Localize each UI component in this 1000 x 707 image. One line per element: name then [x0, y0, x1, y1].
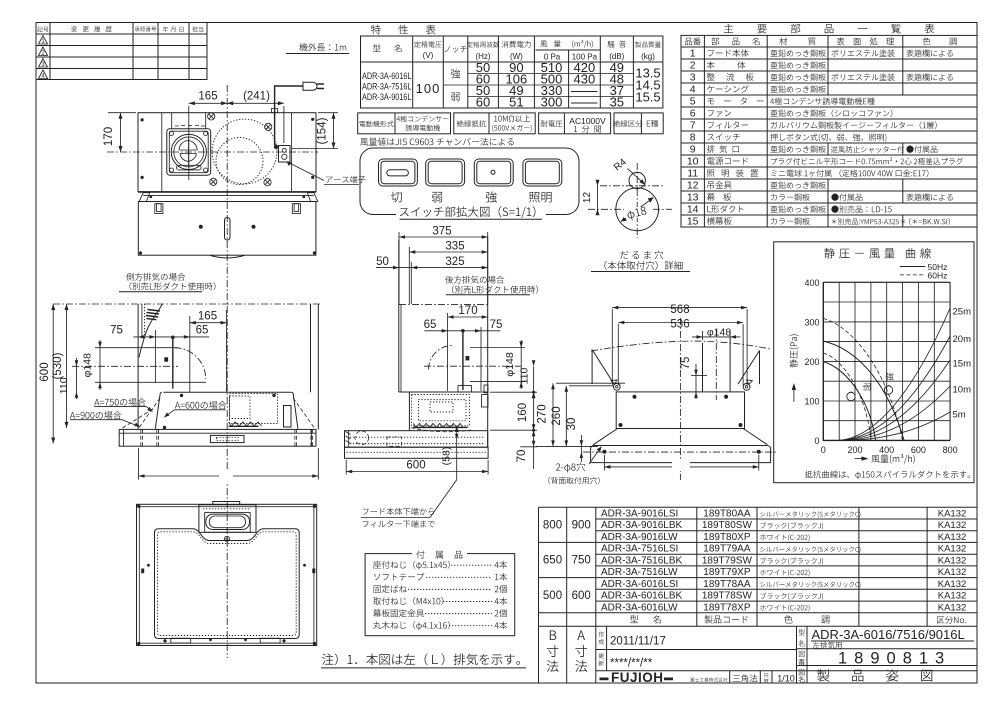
- svg-text:189T79XP: 189T79XP: [703, 567, 751, 578]
- cable length note underline: [286, 53, 349, 55]
- svg-text:189T80AA: 189T80AA: [703, 509, 751, 520]
- duct center rod: [462, 331, 464, 390]
- knob symbols: [847, 386, 893, 401]
- svg-text:3: 3: [690, 72, 696, 84]
- svg-text:KA132: KA132: [938, 602, 967, 613]
- phi148 dim right: [470, 340, 525, 389]
- duct dotted edge: [144, 304, 146, 336]
- phi148 dim: [95, 340, 206, 390]
- exhaust adapter corner screws: [170, 132, 174, 136]
- center slot: [225, 218, 231, 241]
- svg-text:ADR-3A-9016LSI: ADR-3A-9016LSI: [601, 509, 678, 520]
- top view exhaust adapter square: [171, 113, 173, 129]
- svg-text:(W): (W): [510, 52, 523, 61]
- front wall lines right: [310, 304, 312, 392]
- svg-text:1: 1: [690, 48, 696, 60]
- svg-text:ADR-3A-7516LBK: ADR-3A-7516LBK: [601, 555, 682, 566]
- svg-text:270: 270: [537, 404, 549, 423]
- svg-text:ADR-3A-6016/7516/9016L: ADR-3A-6016/7516/9016L: [812, 627, 965, 642]
- svg-text:25m: 25m: [953, 307, 972, 318]
- svg-text:KA132: KA132: [938, 520, 967, 531]
- svg-text:189T80SW: 189T80SW: [702, 520, 753, 531]
- svg-text:KA132: KA132: [938, 555, 967, 566]
- 600 dim: [346, 460, 488, 475]
- svg-text:110: 110: [58, 377, 70, 394]
- svg-text:6: 6: [690, 108, 696, 120]
- duct: [702, 343, 704, 392]
- svg-text:65: 65: [424, 319, 437, 331]
- dim 170: [424, 313, 500, 391]
- svg-text:430: 430: [574, 72, 596, 87]
- svg-text:ADR-3A-6016LW: ADR-3A-6016LW: [601, 602, 678, 613]
- svg-text:30: 30: [566, 418, 578, 431]
- white-out patches (under japanese text): [396, 206, 546, 219]
- svg-text:20m: 20m: [953, 334, 972, 345]
- svg-text:5m: 5m: [953, 410, 966, 421]
- (58) dim + leader: [361, 426, 459, 518]
- svg-text:11: 11: [687, 168, 698, 180]
- svg-text:375: 375: [432, 226, 451, 238]
- body internals dotted: [412, 395, 470, 426]
- rear centerline: [679, 318, 681, 480]
- grid: [823, 282, 950, 440]
- dims 568/536: [612, 306, 747, 385]
- svg-text:500: 500: [543, 590, 562, 602]
- dims 75 / 65 / 165: [133, 310, 226, 392]
- svg-text:400: 400: [804, 278, 819, 288]
- accessory box: [365, 554, 515, 636]
- svg-text:KA132: KA132: [938, 591, 967, 602]
- svg-text:ADR-3A-9016LW: ADR-3A-9016LW: [601, 532, 678, 543]
- svg-text:189T80XP: 189T80XP: [703, 532, 751, 543]
- phi18 arrow across circle: [591, 271, 690, 273]
- 110 dim: [75, 358, 79, 399]
- phi148 dim: [692, 331, 741, 340]
- svg-text:2: 2: [690, 60, 696, 72]
- svg-text:600: 600: [406, 460, 425, 472]
- back wall: [137, 304, 139, 430]
- model rows ascii: [601, 509, 682, 614]
- svg-text:ADR-3A-9016L: ADR-3A-9016L: [362, 92, 412, 102]
- B dim: [604, 455, 758, 471]
- svg-text:7: 7: [690, 120, 696, 132]
- svg-text:0: 0: [821, 445, 826, 455]
- lower rect screw dots: [199, 225, 203, 229]
- duct collar: [458, 386, 472, 393]
- svg-text:ADR-3A-6016L: ADR-3A-6016L: [362, 71, 412, 81]
- svg-text:300: 300: [804, 317, 819, 327]
- electrical spec boxes: [358, 113, 664, 134]
- dims 375/335/325/50: [376, 232, 488, 304]
- svg-text:170: 170: [103, 127, 115, 146]
- svg-text:KA132: KA132: [938, 567, 967, 578]
- svg-text:ADR-3A-7516L: ADR-3A-7516L: [362, 82, 412, 92]
- dashed slants 750/900: [121, 398, 315, 429]
- 270/260/30 dims: [536, 383, 625, 462]
- A dimension: [139, 448, 319, 480]
- svg-text:900: 900: [572, 520, 591, 532]
- svg-text:10m: 10m: [953, 385, 972, 396]
- svg-text:800: 800: [943, 445, 958, 455]
- 110 dim right: [532, 360, 536, 398]
- svg-text:5: 5: [690, 96, 696, 108]
- svg-text:(V): (V): [423, 51, 434, 60]
- svg-text:(154): (154): [317, 117, 329, 144]
- x axis arrow: [855, 458, 866, 460]
- svg-text:φ148: φ148: [81, 353, 93, 377]
- svg-text:(58): (58): [441, 447, 453, 466]
- svg-text:800: 800: [543, 520, 562, 532]
- svg-text:15.5: 15.5: [635, 90, 660, 105]
- svg-text:KA132: KA132: [938, 544, 967, 555]
- side clips: [141, 569, 144, 574]
- svg-text:650: 650: [543, 555, 562, 567]
- top view flange band: [138, 192, 318, 201]
- switch box top center: [213, 502, 240, 505]
- side panels: [592, 350, 614, 385]
- svg-text:70: 70: [516, 450, 528, 463]
- svg-text:12: 12: [582, 192, 593, 204]
- fascia (slim front): [345, 431, 488, 448]
- parts row numbers: [687, 48, 699, 228]
- 75 dim: [691, 364, 707, 399]
- column dividers rows 1-4,9,12,13,15 and row14 at 828: [828, 47, 903, 227]
- svg-text:13: 13: [687, 192, 699, 204]
- top view corner screw dots: [141, 118, 144, 121]
- svg-text:0 Pa: 0 Pa: [544, 53, 561, 62]
- plug: [303, 82, 317, 90]
- exhaust duct circle: [171, 134, 206, 169]
- svg-text:(530): (530): [52, 352, 64, 379]
- svg-text:****/**/**: ****/**/**: [610, 658, 653, 670]
- svg-text:50: 50: [376, 256, 389, 268]
- top view fan scroll dotted circles: [212, 119, 277, 184]
- keyholes on top corners: [611, 380, 752, 390]
- svg-text:60: 60: [476, 95, 490, 110]
- svg-text:15m: 15m: [953, 359, 972, 370]
- resistance curves: [839, 308, 950, 440]
- svg-text:51: 51: [509, 95, 523, 110]
- svg-text:1890813: 1890813: [838, 650, 951, 668]
- body internals dotted: [230, 394, 278, 424]
- svg-text:KA132: KA132: [938, 532, 967, 543]
- svg-text:12: 12: [687, 180, 699, 192]
- swing arc: [175, 348, 206, 379]
- svg-text:325: 325: [445, 256, 464, 268]
- svg-text:189T79SW: 189T79SW: [702, 555, 753, 566]
- A=case leaders: [70, 407, 226, 427]
- svg-text:ADR-3A-9016LBK: ADR-3A-9016LBK: [601, 520, 682, 531]
- wall hatch / duct break: [146, 310, 160, 320]
- slants: [593, 429, 617, 445]
- ceiling: [399, 303, 488, 305]
- y axis arrow: [793, 385, 795, 402]
- top view exhaust horizontal centerline: [107, 151, 318, 153]
- wavy wall line: [591, 341, 770, 351]
- switch buttons: [379, 159, 562, 186]
- svg-text:200: 200: [847, 445, 862, 455]
- svg-text:600: 600: [572, 590, 591, 602]
- svg-text:189T78XP: 189T78XP: [703, 602, 751, 613]
- top view screws with cross: [208, 113, 272, 186]
- characteristics data (ascii): [362, 71, 412, 102]
- fascia band: [119, 429, 316, 446]
- svg-text:0: 0: [814, 436, 819, 446]
- svg-text:KA132: KA132: [938, 509, 967, 520]
- bottom arc cutout: [210, 255, 245, 258]
- body: [616, 392, 744, 429]
- svg-text:14: 14: [687, 204, 699, 216]
- dimension 165 / (241) (top view top): [189, 101, 284, 180]
- svg-text:ADR-3A-6016LBK: ADR-3A-6016LBK: [601, 591, 682, 602]
- hanger brackets: [155, 204, 163, 214]
- ceiling line: [53, 303, 320, 305]
- svg-text:75: 75: [490, 319, 503, 331]
- top view body rect: [138, 113, 316, 192]
- legend: [900, 266, 925, 268]
- top view lower rect (front section): [138, 202, 316, 256]
- svg-text:15: 15: [687, 216, 699, 228]
- switch plate on fascia: [210, 435, 244, 442]
- svg-text:189T79AA: 189T79AA: [703, 544, 751, 555]
- svg-text:75: 75: [110, 325, 123, 337]
- svg-text:600: 600: [911, 445, 926, 455]
- dimension (154) (top view right): [292, 113, 338, 149]
- top view center line vertical: [226, 85, 228, 658]
- damper flaps inside duct: [179, 141, 197, 151]
- svg-text:(Hz): (Hz): [475, 52, 490, 61]
- svg-text:75: 75: [680, 357, 692, 370]
- svg-text:750: 750: [572, 555, 591, 567]
- solid slants A=600: [155, 393, 161, 429]
- svg-text:100: 100: [804, 397, 819, 407]
- svg-text:10: 10: [687, 156, 699, 168]
- svg-text:100: 100: [416, 81, 441, 96]
- hood top: [399, 391, 488, 393]
- svg-text:100 Pa: 100 Pa: [572, 53, 598, 62]
- axis numbers: [804, 278, 819, 446]
- 600 dim: [51, 304, 68, 444]
- band: [591, 446, 771, 463]
- chimney edges: [398, 240, 400, 392]
- svg-text:ADR-3A-6016LSI: ADR-3A-6016LSI: [601, 579, 678, 590]
- svg-text:9: 9: [690, 144, 696, 156]
- svg-text:189T78AA: 189T78AA: [703, 579, 751, 590]
- svg-text:FUJIOH: FUJIOH: [611, 670, 664, 685]
- svg-text:65: 65: [196, 325, 209, 337]
- svg-text:335: 335: [445, 241, 464, 253]
- power cord: [275, 86, 303, 145]
- duct S curve: [139, 304, 162, 357]
- svg-text:35: 35: [610, 95, 624, 110]
- svg-text:(241): (241): [243, 91, 270, 103]
- svg-text:4: 4: [690, 84, 696, 96]
- svg-text:60Hz: 60Hz: [928, 271, 948, 281]
- svg-text:260: 260: [551, 406, 563, 425]
- svg-text:300: 300: [541, 95, 563, 110]
- svg-text:AC1000V: AC1000V: [569, 116, 606, 126]
- svg-text:189T78SW: 189T78SW: [702, 591, 753, 602]
- svg-text:200: 200: [804, 357, 819, 367]
- svg-text:600: 600: [39, 362, 51, 381]
- svg-text:ADR-3A-7516LSI: ADR-3A-7516LSI: [601, 544, 678, 555]
- svg-text:ADR-3A-7516LW: ADR-3A-7516LW: [601, 567, 678, 578]
- svg-text:(kg): (kg): [641, 52, 655, 61]
- svg-text:400: 400: [879, 445, 894, 455]
- dimension 170 (top view left): [108, 113, 136, 152]
- exhaust flange bolt ticks: [175, 125, 205, 128]
- svg-text:(dB): (dB): [609, 52, 624, 61]
- revision table: [36, 23, 207, 80]
- fan curves: [823, 341, 904, 440]
- svg-text:2011/11/17: 2011/11/17: [610, 636, 666, 648]
- svg-text:KA132: KA132: [938, 579, 967, 590]
- dims 160 / 70 between views: [490, 391, 537, 469]
- svg-text:165: 165: [198, 311, 217, 323]
- svg-text:φ148: φ148: [504, 352, 516, 376]
- earth terminal box: [279, 146, 291, 163]
- revision triangle marks 1-4: [39, 36, 48, 79]
- bottom band: [345, 447, 489, 458]
- duct center rod: [172, 337, 174, 389]
- leader from fuudo text to (58): [408, 565, 492, 626]
- swing arc: [429, 346, 453, 370]
- svg-text:568: 568: [670, 304, 689, 316]
- svg-text:8: 8: [690, 132, 696, 144]
- bottom clips: [171, 638, 191, 643]
- svg-text:170: 170: [458, 305, 477, 317]
- svg-text:160: 160: [517, 403, 529, 422]
- body top edge: [164, 391, 292, 393]
- earth terminal leader: [287, 162, 325, 181]
- filter panel: [155, 529, 300, 639]
- svg-text:1/10: 1/10: [777, 674, 795, 684]
- svg-text:165: 165: [198, 91, 217, 103]
- 2-phi8 leader: [589, 447, 602, 465]
